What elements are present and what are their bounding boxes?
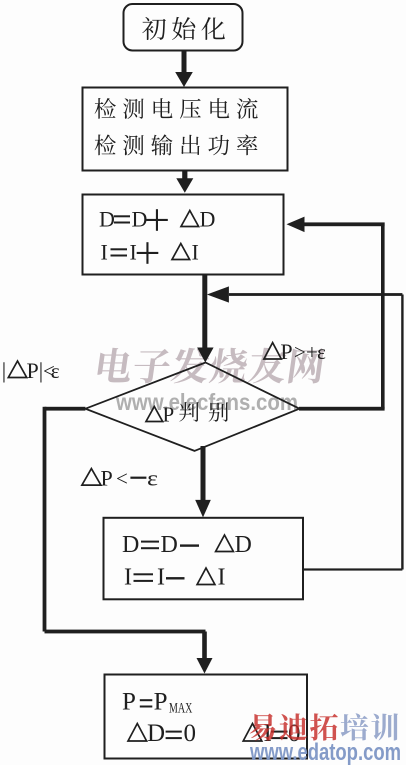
terminator 初始化 [124,4,243,51]
svg-text:I: I [157,565,165,591]
wire feedback from D=D− box to center arrow [207,286,404,570]
arrow 检测 box to D=D+ box [176,171,193,193]
svg-text:www.edatop.com: www.edatop.com [249,739,401,765]
svg-text:I: I [130,240,137,265]
svg-text:P: P [163,403,175,427]
decision diamond ΔP判别 [85,363,299,451]
label |ΔP|<ε [2,358,60,383]
svg-text:|: | [2,358,6,383]
svg-text:D: D [122,532,139,558]
label ΔP>+ε [264,339,326,364]
process box 检测电压电流 / 检测输出功率 [83,88,288,171]
svg-text:I: I [218,565,226,591]
svg-text:www.elecfans.com: www.elecfans.com [115,389,298,415]
process box D=D−ΔD I=I−ΔI [104,518,304,600]
arrow D=D+ box to decision diamond [197,275,214,363]
svg-text:D: D [99,207,115,232]
process box D=D+ΔD I=I+ΔI [83,195,284,275]
svg-text:P: P [101,465,113,490]
svg-text:D: D [147,720,165,747]
svg-text:I: I [124,565,132,591]
svg-text:ε: ε [147,465,158,490]
arrow 初始化 to 检测 box [175,51,193,88]
svg-text:MAX: MAX [169,701,193,717]
process box P=Pmax ΔD=0 ΔI=0 [105,675,308,759]
svg-text:<: < [116,466,128,490]
svg-text:P: P [154,689,168,716]
svg-text:P: P [280,339,292,364]
arrow diamond to D=D− box [195,446,211,517]
svg-text:D: D [161,532,178,558]
svg-text:I: I [101,240,108,265]
svg-text:D: D [132,207,148,232]
svg-text:>: > [294,340,306,364]
watermark 易迪拓培训 [250,713,398,740]
svg-text:D: D [235,532,252,558]
svg-text:ε: ε [51,359,60,383]
watermark 电子发烧友网 [96,348,325,384]
label ΔP<−ε [82,465,158,490]
svg-text:0: 0 [184,720,197,747]
svg-text:P: P [27,358,39,383]
svg-text:D: D [200,207,216,232]
wire |ΔP|<ε branch: diamond left vertex down to P=Pmax box [43,407,213,674]
svg-text:I: I [192,240,199,265]
wire ΔP>+ε branch: diamond right vertex to box3 right edge [287,217,385,411]
svg-text:ε: ε [317,340,326,364]
svg-text:P: P [122,689,136,716]
